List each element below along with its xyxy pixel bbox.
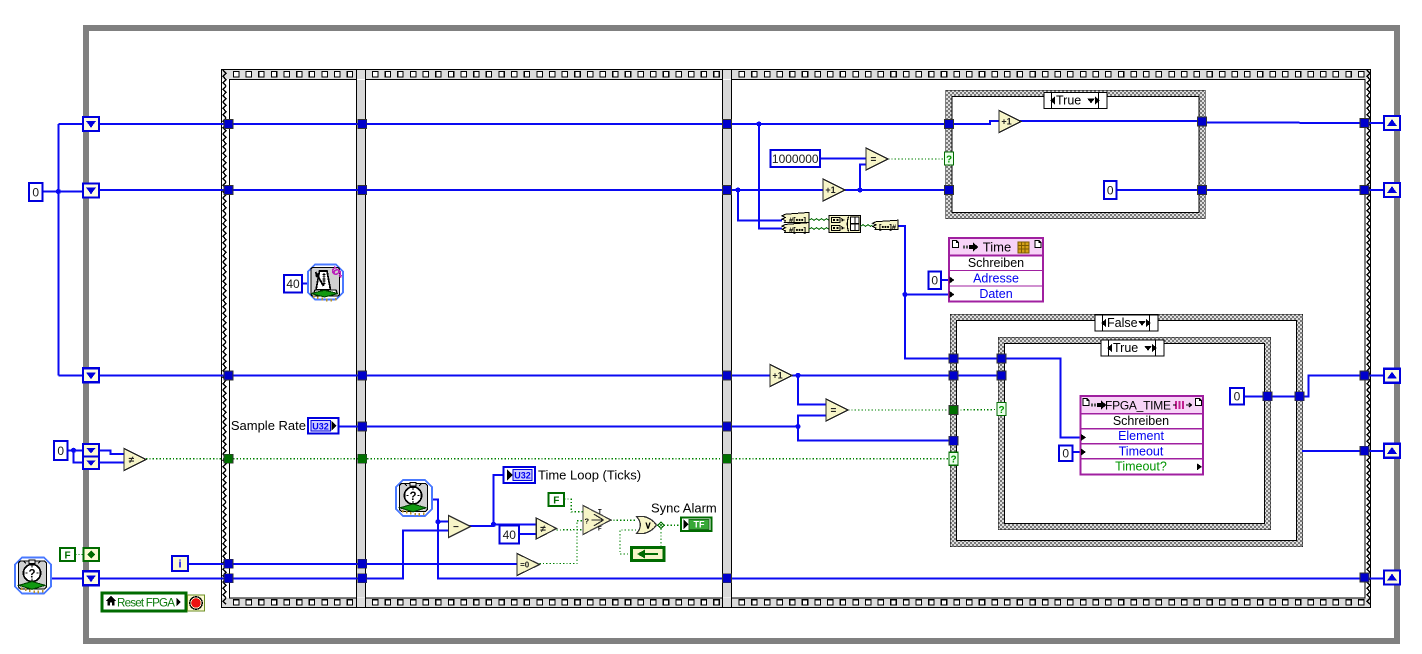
wire 0c to case1 right tunnel [1116,189,1199,191]
case 3 selector label [1101,340,1164,356]
increment +1 b [823,179,845,201]
boolean constant F2 [549,493,565,506]
junction dot at x759 on W1 [756,121,761,126]
subtract node [449,516,471,538]
caseF left tunnel y358 [949,354,958,363]
svg-text:40: 40 [286,277,300,291]
stopwatch icon A (outside loop) [15,558,51,594]
svg-text:0: 0 [57,444,64,458]
svg-text:U32: U32 [514,471,531,481]
build array node [829,216,861,233]
left shift register SR4a [83,444,99,457]
wire W4 between False and inner case [957,374,999,376]
wire 40b to metronome [302,283,307,285]
green wire equals2 to case False [848,409,950,411]
svg-text:0: 0 [1062,447,1069,461]
tunnel divider2 y124 [723,120,732,129]
left shift register SR4b [83,457,99,470]
boolean constant F1 [60,548,75,561]
svg-text:≠: ≠ [540,524,546,535]
not-equal node 2 [536,518,556,539]
tunnel divider2 y578 [723,574,732,583]
sequence frame 2 outline [366,80,723,599]
svg-text:0: 0 [1234,390,1241,404]
tunnel divider2 y458 [723,454,732,463]
metronome icon (loop timer) [308,265,343,302]
iteration terminal i [172,556,188,571]
wire inner case to Element [1005,359,1081,438]
svg-text:Sample Rate: Sample Rate [231,418,306,433]
sequence frame 1 outline [230,80,357,599]
node A junction dot [56,189,61,194]
wire vertical trunk x58 [57,124,59,375]
left shift register SR1 [83,117,99,131]
svg-text:T: T [598,510,602,516]
green wire down to feedback node [660,525,662,548]
wire to SR3 [58,374,84,376]
constant 0a [29,183,43,201]
wire W5 Sample Rate to junction x798 [338,426,798,428]
svg-text:[•••]#: [•••]# [879,223,897,232]
svg-text:40: 40 [503,528,517,542]
increment +1 a (inside case 1) [999,111,1021,133]
tunnel seq-right y375 [1360,371,1369,380]
caseF selector terminal [949,452,958,466]
or node [637,517,657,534]
tunnel divider1 y458 [358,454,367,463]
equals node 2 [826,399,848,421]
green junction diamond [658,522,665,529]
case1 left tunnel y190 [945,186,954,195]
register write node FPGA_TIME [1081,396,1204,475]
tunnel seq-left y190 [224,186,233,195]
wire False to inner case y358 [957,358,999,360]
tunnel divider2 y190 [723,186,732,195]
tunnel seq-right y577 [1360,573,1369,582]
wire W1 from +1 to case right [1020,120,1199,122]
tunnel seq-left y578 [224,574,233,583]
svg-text:?: ? [409,491,416,503]
wire SR5 out to subtract branch [99,531,449,579]
wire 0f to inner right tunnel [1244,395,1264,397]
tunnel divider2 y375 [723,371,732,380]
svg-text:−: − [453,522,459,533]
green wire neq2 to select f input [557,529,584,531]
wire 0e to Timeout [1073,451,1081,453]
svg-text:Timeout: Timeout [1119,444,1164,458]
wire from i terminal to =0 [188,563,517,565]
sequence frame 3 outline [732,80,1366,599]
junction dot 0b [71,448,76,453]
select node [583,506,611,535]
caseF left tunnel y441 [949,436,958,445]
svg-text:Daten: Daten [979,287,1012,301]
svg-text:True: True [1056,94,1081,108]
wire inner tunnel to False tunnel [1271,395,1296,397]
svg-text:U32: U32 [312,422,329,432]
svg-text:0: 0 [931,274,938,288]
svg-text:Sync Alarm: Sync Alarm [651,501,717,516]
tunnel divider1 y426 [358,422,367,431]
constant 40a [500,526,520,544]
case 2 selector label [1095,315,1158,331]
svg-text:?: ? [998,405,1004,416]
case structure 3 (True, nested) [999,338,1271,530]
svg-text:TF: TF [694,520,705,530]
svg-text:+1: +1 [825,185,835,195]
green zigzag node1b to build [809,228,829,230]
wire drop x798 to equals2 top input [798,375,826,404]
tunnel seq-left y124 [224,120,233,129]
svg-text:+1: +1 [1001,117,1011,127]
wire case False to SR4r (y451) [1302,450,1394,452]
equals node U-eq1 [866,148,888,170]
wire stopwatch A to SR5 [51,577,84,579]
right shift register SR4r [1384,444,1400,458]
array node 1b (number to boolean array) [782,223,809,235]
wire case1 to SR2r [1205,189,1394,191]
svg-text:?: ? [950,455,956,466]
wire W4 (y375) SR3 to +1c [99,374,770,376]
tunnel divider1 y563 [358,559,367,568]
left shift register SR2 [83,184,99,198]
green wire feedback to or bottom [620,530,636,554]
svg-text:Timeout?: Timeout? [1115,460,1167,474]
wire to Time Daten input [905,294,949,296]
tunnel seq-left y458 [224,454,233,463]
constant 0f (inner case out) [1230,388,1244,405]
tunnel seq-right y450 [1360,446,1369,455]
svg-text:True: True [1113,341,1138,355]
green wire F1 to diamond tunnel [75,554,84,556]
tunnel divider1 y190 [358,186,367,195]
constant 0d (Time Adresse) [929,272,942,290]
svg-text:≠: ≠ [129,455,135,466]
wire W2 (y190) SR2 to +1b [99,189,823,191]
indicator U32 Time Loop (Ticks) [504,467,536,483]
svg-text:#[•••]: #[•••] [789,226,807,235]
svg-text:1000000: 1000000 [772,152,819,166]
control Sample Rate U32 [308,418,339,434]
svg-text:=: = [871,155,877,166]
constant 1000000 [771,150,821,167]
wire W1 inside case 1 to +1 [952,121,999,124]
caseF left tunnel y375 [949,371,958,380]
case structure 2 (False, bottom right) [951,315,1303,547]
green wire equals out to case 1 selector [888,158,944,160]
wire 0d to Time Adresse [941,279,949,281]
wire W2 +1 out to case 1 [844,189,946,191]
constant 0e (Timeout) [1059,446,1073,462]
case structure 1 (True, top right) [946,91,1205,219]
svg-text:Time Loop (Ticks): Time Loop (Ticks) [538,468,641,483]
register write node Time [949,238,1043,302]
flat sequence top film band [222,70,1370,79]
tunnel divider1 y375 [358,371,367,380]
svg-text:i: i [178,559,181,571]
green wire F const to select t input [564,499,583,512]
caseF green tunnel y410 [949,406,958,415]
divider 1 lines through bands [357,70,366,607]
junction dot at x860 on W2 [857,187,862,192]
wire False right tunnel up to SR3r [1303,376,1395,397]
svg-text:?: ? [946,155,952,166]
case1 right tunnel y190 [1198,186,1207,195]
svg-text:False: False [1107,316,1138,330]
green wire neq out across frames to False selector [146,458,948,460]
left shift register SR3 [83,368,99,382]
svg-text:0: 0 [32,185,39,199]
svg-text:Time: Time [983,240,1011,255]
caseT right tunnel y396 [1263,392,1272,401]
caseT left tunnel y375 [997,371,1006,380]
wire drop x738 to array node 1a [738,190,782,220]
wire 40 to neq2 [519,533,536,535]
divider 2 gray gap [723,80,731,598]
caseF right tunnel y396 [1295,392,1304,401]
constant 0c (inside case 1) [1104,181,1117,199]
junction dot Daten [902,292,907,297]
svg-text:0: 0 [1107,183,1114,197]
svg-text:=: = [831,406,837,417]
svg-text:Schreiben: Schreiben [1113,414,1169,428]
svg-text:F: F [64,550,70,561]
wire 0b down to SR4b [74,450,84,462]
Reset FPGA button [102,593,186,611]
case 1 selector label [1044,93,1107,109]
tunnel seq-right y190 [1360,186,1369,195]
svg-text:F: F [598,527,602,533]
wire to SR1 [58,123,84,125]
wire x798 up to equals2 bottom [798,416,826,427]
tunnel seq-right y123 [1360,119,1369,128]
wire to subtract top input [438,521,449,523]
tunnel divider1 y124 [358,120,367,129]
green zigzag node1a to build [809,219,829,221]
wire W4 +1c out to case False [792,374,951,376]
flat sequence right zigzag cap [1367,70,1370,604]
junction dot x798 on W4 [795,373,800,378]
divider 1 gray gap [357,80,365,598]
feedback node [632,548,665,561]
right shift register SR1r [1384,116,1400,130]
caseT left tunnel y358 [997,354,1006,363]
svg-text:FPGA_TIME: FPGA_TIME [1105,399,1171,413]
constant 0b [54,441,68,460]
junction dot at x738 [735,187,740,192]
flat sequence outer frame [222,70,1371,608]
wire up to U32 indicator [494,475,504,525]
svg-text:Adresse: Adresse [973,272,1019,286]
flat sequence bottom film band [222,598,1370,607]
wire W1 left (y124) from left shift register to case 1 [99,123,946,125]
wire array out down to Time Daten and case False [898,226,951,359]
svg-text:F: F [553,495,559,506]
svg-text:+1: +1 [772,371,782,381]
wire SR4a jog to neq1 [99,450,124,454]
green zigzag build to out [861,225,873,227]
tunnel seq-left y563 [224,559,233,568]
svg-text:Element: Element [1118,429,1164,443]
svg-text:?: ? [28,569,35,581]
wire drop x759 to array node 1b [759,124,782,228]
caseT selector terminal [997,403,1006,417]
junction dot x798 on W5 [795,424,800,429]
wire from constant 0a to junction [42,191,58,193]
array out node (boolean array to number) [873,220,899,231]
tunnel divider1 y578 [358,574,367,583]
wire x798 down to case False tunnel y441 [798,427,951,441]
green wire or out to TF [657,524,681,526]
green wire =0 out to select s input [540,521,584,564]
case1 selector terminal [945,152,954,166]
stopwatch icon B (loop timer in frame 2) [396,480,432,516]
flat sequence left zigzag cap [223,70,226,604]
wire stopwatch B down [433,500,1394,579]
not-equal node 1 [124,449,146,471]
wire 1000000 to equals [820,158,866,160]
wire SR4b to neq1 [99,462,124,464]
junction dot x493 [491,522,496,527]
constant 40b [284,275,302,293]
loop tunnel boolean diamond [84,548,100,561]
wire 0b to SR4a [67,449,84,451]
green wire select to or node [610,519,636,521]
equals-zero node [517,554,540,576]
indicator TF Sync Alarm [681,518,712,532]
increment +1 c [770,365,792,387]
left shift register SR5 [83,571,99,585]
wire W1 case 1 to right shift register [1205,122,1394,125]
svg-text:?: ? [585,516,590,525]
right shift register SR3r [1384,369,1400,383]
svg-text:=0: =0 [520,560,530,569]
right shift register SR5r [1384,571,1400,585]
divider 2 lines through bands [723,70,732,607]
right shift register SR2r [1384,183,1400,197]
svg-text:Schreiben: Schreiben [968,256,1024,270]
case1 left tunnel y124 [945,120,954,129]
tunnel seq-left y375 [224,371,233,380]
green wire between False and inner selector [957,409,998,412]
svg-text:∨: ∨ [644,521,651,532]
svg-text:Reset FPGA: Reset FPGA [117,596,175,609]
case1 right tunnel y122 [1198,117,1207,126]
wire subtract out to corner [470,524,537,526]
array node 1a (number to boolean array) [782,212,809,224]
wire to SR2 [58,191,84,193]
stop button (red) [188,595,205,611]
wire x860 up to equals node [860,165,866,191]
tunnel divider2 y426 [723,422,732,431]
junction dot stopwatch B [435,519,440,524]
